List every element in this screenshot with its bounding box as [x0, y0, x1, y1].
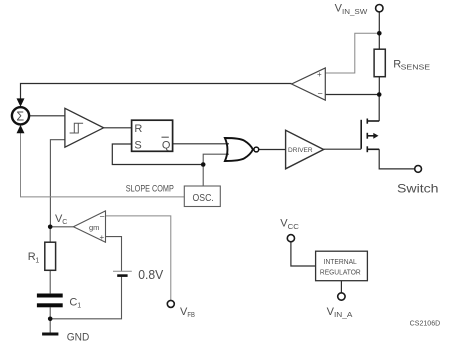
svg-text:IN_A: IN_A: [334, 312, 353, 319]
svg-text:0.8V: 0.8V: [138, 268, 164, 282]
svg-text:−: −: [318, 89, 323, 99]
svg-text:Σ: Σ: [16, 109, 24, 123]
svg-text:Switch: Switch: [397, 182, 439, 196]
svg-text:OSC.: OSC.: [193, 193, 214, 204]
svg-text:C: C: [69, 296, 77, 308]
svg-text:R: R: [134, 123, 142, 135]
svg-text:SENSE: SENSE: [401, 62, 431, 71]
svg-text:S: S: [134, 139, 141, 151]
svg-text:1: 1: [35, 257, 39, 264]
svg-text:SLOPE COMP: SLOPE COMP: [126, 184, 174, 194]
svg-text:−: −: [100, 212, 105, 222]
svg-text:CS2106D: CS2106D: [410, 320, 441, 327]
svg-text:+: +: [100, 233, 105, 242]
svg-text:Q: Q: [162, 139, 171, 151]
svg-text:INTERNAL: INTERNAL: [324, 257, 357, 266]
svg-text:DRIVER: DRIVER: [288, 147, 313, 154]
svg-text:REGULATOR: REGULATOR: [320, 267, 361, 276]
svg-text:gm: gm: [89, 223, 99, 232]
svg-text:CC: CC: [288, 222, 299, 231]
svg-text:IN_SW: IN_SW: [342, 9, 368, 16]
svg-text:GND: GND: [67, 331, 90, 343]
svg-text:+: +: [317, 70, 322, 79]
svg-text:1: 1: [77, 303, 81, 310]
svg-text:C: C: [62, 219, 67, 226]
svg-text:FB: FB: [187, 312, 195, 319]
